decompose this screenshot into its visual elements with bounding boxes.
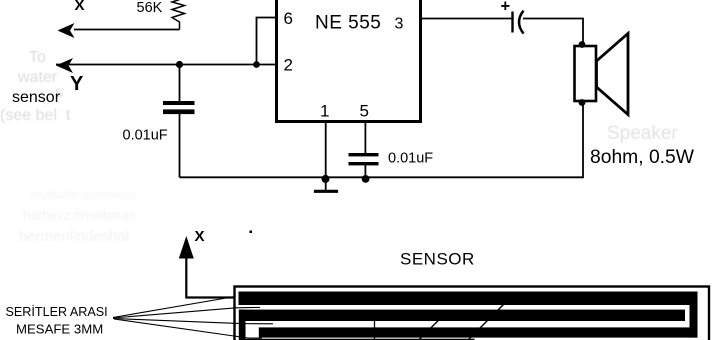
stray dot	[250, 231, 253, 234]
speaker terminal top	[579, 41, 586, 48]
wire X axis vertical	[185, 257, 187, 297]
svg-text:SENSOR: SENSOR	[400, 250, 475, 269]
wire speaker bottom lead	[582, 104, 584, 178]
sensor strip bar3	[259, 327, 698, 337]
svg-text:water: water	[17, 69, 58, 86]
wire C3 to speaker	[523, 19, 583, 45]
sensor break slash A	[468, 303, 505, 340]
faint watermark text "s"	[55, 84, 63, 101]
svg-text:56K: 56K	[137, 0, 163, 16]
capacitor C2 0.01uF	[349, 153, 379, 165]
resistor R1 56K zigzag	[172, 0, 185, 30]
junction node pin5 / rail	[362, 175, 370, 183]
svg-text:8ohm, 0.5W: 8ohm, 0.5W	[590, 147, 695, 168]
svg-text:5: 5	[360, 102, 369, 121]
svg-text:NE 555: NE 555	[315, 13, 381, 34]
speaker LS1 horn	[597, 34, 629, 115]
sensor tick mark	[374, 319, 376, 340]
sensor break slash B	[419, 313, 447, 340]
sensor right spine	[690, 292, 698, 338]
svg-text:MESAFE 3MM: MESAFE 3MM	[16, 322, 103, 337]
svg-text:To: To	[29, 49, 46, 66]
capacitor C3 curved plate	[519, 11, 524, 34]
sensor strip bar4	[244, 339, 475, 340]
speaker LS1 body	[575, 46, 597, 101]
sensor strip bar1	[239, 292, 698, 306]
svg-text:2: 2	[284, 56, 293, 75]
leader line 1	[113, 297, 235, 318]
svg-text:harbiniz hmelbinas: harbiniz hmelbinas	[23, 208, 136, 223]
ground	[314, 190, 338, 193]
sensor outer frame	[235, 287, 710, 340]
capacitor C1 0.01uF	[163, 101, 195, 114]
wire Y / pin2 line	[56, 64, 277, 66]
arrow X axis of sensor	[179, 236, 194, 259]
sensor left spine	[239, 310, 246, 340]
svg-text:0.01uF: 0.01uF	[388, 151, 433, 167]
svg-text:Y: Y	[70, 73, 84, 95]
faint watermark text "water"	[17, 69, 58, 86]
svg-text:Speaker: Speaker	[607, 123, 678, 144]
leader line 4	[114, 319, 262, 338]
arrowhead X	[58, 23, 75, 38]
junction node pin1 / rail	[322, 175, 330, 183]
faint watermark text "(see bel"	[0, 107, 71, 124]
wire C1 top lead	[179, 65, 181, 102]
svg-text:0.01uF: 0.01uF	[123, 128, 168, 144]
junction node on Y line at C1	[176, 61, 183, 68]
capacitor C3 straight plate	[511, 12, 513, 33]
svg-text:1: 1	[320, 102, 329, 121]
svg-text:mulballm nishmebni: mulballm nishmebni	[30, 188, 136, 202]
arrowhead Y	[56, 58, 73, 73]
faint erased text rows lower-left	[19, 188, 136, 245]
sensor strip bar2	[239, 310, 685, 321]
faint watermark text "Speaker"	[607, 123, 678, 144]
wire pin6 branch	[257, 18, 277, 65]
wire X output	[74, 29, 180, 31]
wire C2 bottom lead	[364, 165, 366, 177]
svg-text:bermenlindeshal: bermenlindeshal	[19, 228, 129, 245]
op-amp timer U1 NE555 box	[277, 0, 421, 122]
wire pin1 lead	[325, 121, 327, 190]
wire pin3 to C3	[421, 18, 512, 20]
wire bottom rail	[180, 176, 584, 178]
wire X axis to sensor	[185, 296, 234, 298]
wire pin5 lead	[364, 121, 366, 153]
svg-text:X: X	[195, 228, 205, 245]
junction node on Y line at pin6 branch	[253, 61, 260, 68]
wire C1 bottom lead	[179, 114, 181, 178]
svg-text:X: X	[75, 0, 85, 14]
svg-text:6: 6	[284, 9, 293, 28]
leader line 2	[113, 307, 260, 318]
leader line 3	[113, 319, 273, 324]
svg-text:3: 3	[395, 16, 404, 33]
faint watermark text "To"	[29, 49, 46, 66]
svg-text:sensor: sensor	[12, 89, 61, 106]
svg-text:+: +	[501, 0, 511, 16]
svg-text:SERİTLER ARASI: SERİTLER ARASI	[6, 305, 108, 319]
speaker terminal bottom	[579, 99, 586, 106]
svg-text:(see bel t: (see bel t	[0, 107, 71, 124]
